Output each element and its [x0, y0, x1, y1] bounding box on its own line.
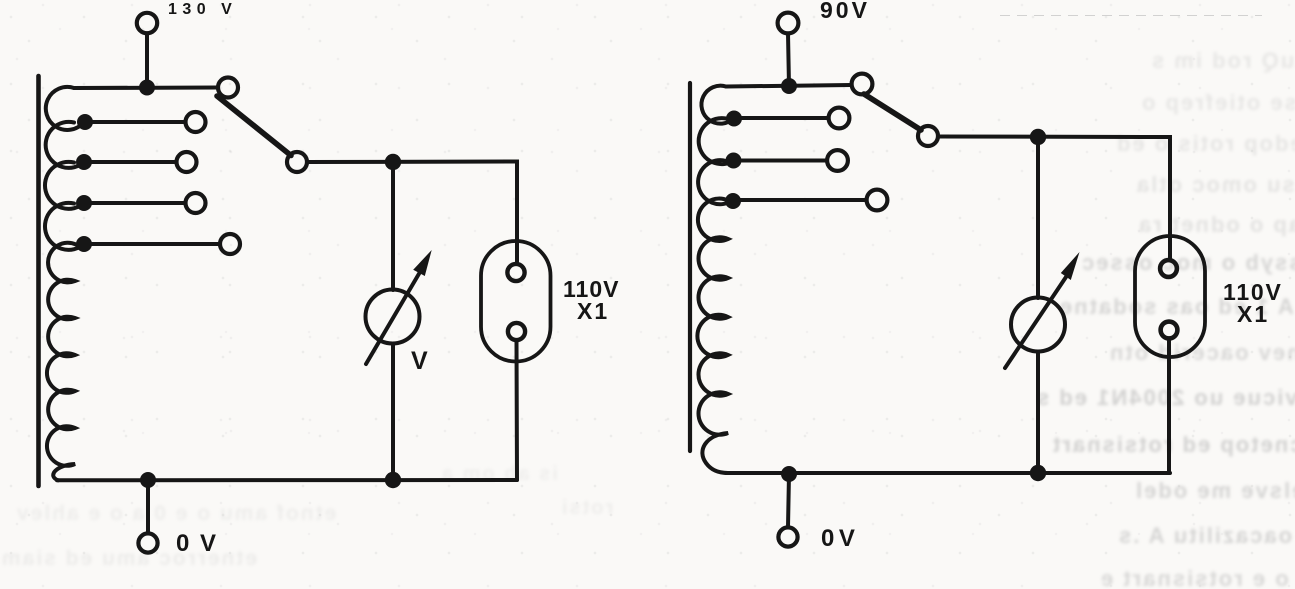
- faint top-right scan line: [1000, 15, 1262, 16]
- winding bend 4: [45, 203, 84, 250]
- svg-text:0V: 0V: [821, 525, 859, 552]
- bottom rail wire: [57, 478, 517, 482]
- winding lower scallops: [47, 243, 76, 481]
- winding bend 1: [46, 87, 84, 130]
- node: top junction dot 90V: [781, 78, 797, 94]
- voltmeter M1 body: [366, 290, 420, 344]
- wire meter top: [391, 162, 395, 290]
- tap terminal circle 3: [186, 193, 206, 213]
- tap wire 2: [734, 159, 827, 163]
- winding tap dot 1: [77, 114, 93, 130]
- tap wire 1: [734, 116, 829, 120]
- tap terminal circle 2: [827, 150, 848, 171]
- node B junction dot bottom: [385, 472, 401, 488]
- lamp bottom wire: [515, 342, 520, 480]
- winding bend 2: [46, 122, 84, 168]
- wire to 0V terminal: [788, 474, 789, 527]
- voltmeter M2 needle head: [1061, 252, 1080, 280]
- lamp X2 envelope: [1135, 236, 1205, 357]
- bleed-through mirrored text right column: [900, 0, 1295, 589]
- svg-text:V: V: [411, 347, 428, 375]
- node D junction dot bottom: [1030, 465, 1046, 481]
- switch S1 arm: [217, 96, 291, 156]
- wire to 0V terminal: [146, 480, 150, 533]
- lamp X1 envelope: [481, 241, 551, 362]
- winding tap dot 1: [726, 111, 742, 127]
- wire meter bottom: [1036, 352, 1040, 474]
- terminal 130V: [137, 13, 157, 33]
- switch S2 arm: [864, 94, 921, 130]
- winding tap dot 4: [76, 236, 92, 252]
- switch S1 throw contact: [218, 78, 238, 98]
- winding tap dot 3: [76, 195, 92, 211]
- winding bend 3: [698, 160, 733, 204]
- winding bend 2: [699, 118, 734, 164]
- wire to 90V terminal: [788, 34, 789, 87]
- node 0V junction dot: [781, 466, 797, 482]
- winding tap dot 2: [76, 154, 92, 170]
- voltmeter M1 needle head: [413, 250, 432, 276]
- voltmeter M1 needle: [366, 272, 420, 364]
- bottom rail wire: [726, 471, 1170, 475]
- node 0V junction dot: [140, 472, 156, 488]
- lamp X2 top contact: [1160, 260, 1177, 277]
- tap wire 1: [84, 120, 185, 124]
- winding bend 1: [701, 86, 734, 124]
- terminal 0V: [138, 533, 157, 552]
- transformer T1 winding top wire: [74, 86, 218, 91]
- terminal 0V: [778, 527, 797, 546]
- top rail wire: [938, 137, 1170, 259]
- tap wire 3: [733, 198, 867, 202]
- tap terminal circle 1: [186, 112, 206, 132]
- node C junction dot: [1030, 129, 1046, 145]
- tap terminal circle 2: [177, 152, 197, 172]
- winding bend 3: [45, 162, 84, 209]
- lamp X1 bottom contact: [508, 323, 525, 340]
- winding lower scallops: [697, 199, 728, 473]
- tap terminal circle 4: [220, 234, 240, 254]
- bleed-through bottom-left: [0, 455, 660, 589]
- lamp X2 bottom contact: [1161, 322, 1178, 339]
- tap wire 2: [84, 160, 176, 164]
- wire meter bottom: [391, 344, 395, 481]
- wire meter top: [1036, 137, 1040, 298]
- top rail wire: [307, 162, 517, 263]
- node A junction dot: [385, 154, 401, 170]
- tap wire 4: [84, 242, 220, 246]
- svg-text:X1: X1: [577, 298, 609, 324]
- svg-text:90V: 90V: [820, 0, 870, 23]
- switch S1 pole contact: [287, 152, 307, 172]
- voltmeter M2 body: [1011, 298, 1065, 352]
- wire to 130V terminal: [145, 34, 149, 88]
- winding tap dot 2: [726, 153, 742, 169]
- svg-text:0 V: 0 V: [176, 530, 218, 557]
- voltmeter M2 needle: [1005, 277, 1066, 368]
- switch S2 pole contact: [918, 126, 938, 146]
- tap terminal circle 1: [829, 108, 850, 129]
- tap wire 3: [84, 201, 185, 205]
- svg-text:X1: X1: [1237, 301, 1269, 327]
- node: top junction dot 130V: [139, 80, 155, 96]
- terminal 90V: [778, 13, 799, 34]
- svg-text:130 V: 130 V: [168, 1, 237, 18]
- winding tap dot 3: [725, 193, 741, 209]
- tap terminal circle 3: [867, 190, 888, 211]
- lamp X1 top contact: [507, 264, 524, 281]
- lamp bottom wire: [1167, 340, 1171, 473]
- transformer T1 core: [36, 76, 41, 486]
- transformer T2 core: [688, 83, 692, 451]
- transformer T2 winding top wire: [726, 85, 851, 87]
- switch S2 throw contact: [852, 74, 873, 95]
